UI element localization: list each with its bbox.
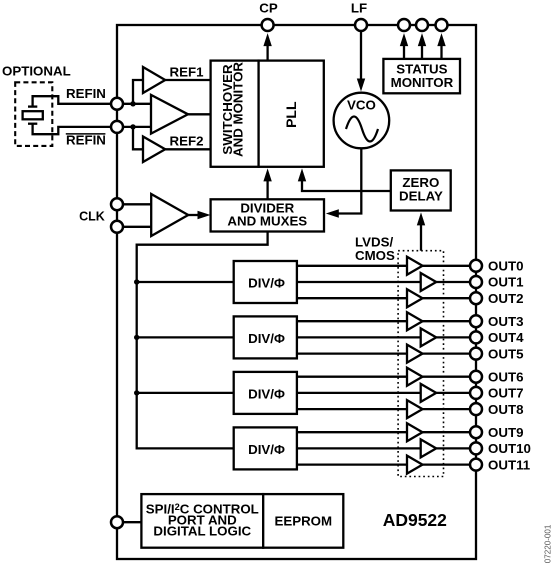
wire OUT8 buffer to pin (423, 408, 477, 410)
wire OUT2 buffer to pin (423, 297, 477, 299)
wire divider to OUT7 buffer (297, 392, 421, 394)
pin OUT4 (470, 331, 482, 343)
oscillator VCO circle (334, 93, 390, 149)
wire divider to OUT4 buffer (297, 336, 421, 338)
node feed junction 1 (134, 279, 139, 284)
svg-text:OUT4: OUT4 (488, 330, 524, 345)
node REFIN junction (130, 101, 135, 106)
svg-text:OUT8: OUT8 (488, 402, 523, 417)
svg-text:DIV/Φ: DIV/Φ (248, 442, 285, 457)
pin OUT8 (470, 403, 482, 415)
buffer REF2 (143, 137, 165, 163)
box DIVIDER AND MUXES (211, 199, 324, 231)
wire OUT7 buffer to pin (436, 392, 476, 394)
pin OUT3 (470, 315, 482, 327)
wire crystal top to REFIN (33, 96, 117, 106)
wire CLKB to clock buffer (117, 226, 151, 228)
node feed junction 3 (134, 390, 139, 395)
svg-text:OUT0: OUT0 (488, 259, 523, 274)
buffer differential reference (151, 95, 188, 134)
svg-text:AND MONITOR: AND MONITOR (230, 62, 245, 157)
pin OUT6 (470, 371, 482, 383)
pin OUT7 (470, 387, 482, 399)
buffer OUT8 driver (407, 400, 423, 418)
svg-text:OUT5: OUT5 (488, 346, 524, 361)
wire REFINB to reference buffers (117, 126, 151, 128)
wire divider to OUT1 buffer (297, 281, 421, 283)
wire VCO to divider (337, 148, 361, 213)
wire REF2 buffer to switchover (165, 148, 210, 150)
wire REF1 buffer to switchover (165, 79, 210, 81)
wire feed to channel divider 2 (137, 336, 234, 338)
svg-text:LF: LF (351, 0, 367, 15)
pin STATUS1 (398, 19, 410, 31)
crystal Y1 bottom plate (28, 123, 37, 125)
pin OUT9 (470, 426, 482, 438)
svg-text:MONITOR: MONITOR (391, 75, 454, 90)
svg-text:AD9522: AD9522 (383, 510, 447, 530)
wire divider to OUT2 buffer (297, 297, 407, 299)
svg-text:OUT6: OUT6 (488, 369, 523, 384)
box SPI/I2C control port (141, 494, 263, 548)
pin CLKB (111, 221, 123, 233)
pin OUT11 (470, 459, 482, 471)
wire feed to channel divider 3 (137, 392, 234, 394)
wire REFINB branch to REF2 buffer (133, 127, 143, 149)
pin STATUS3 (436, 19, 448, 31)
pin OUT10 (470, 442, 482, 454)
svg-text:PLL: PLL (283, 101, 299, 128)
pin OUT5 (470, 348, 482, 360)
crystal Y1 top plate (28, 105, 37, 107)
svg-text:REF1: REF1 (170, 65, 205, 80)
svg-text:OUT1: OUT1 (488, 275, 524, 290)
wire OUT9 buffer to pin (423, 431, 477, 433)
svg-text:DIV/Φ: DIV/Φ (248, 275, 285, 290)
pin CP (262, 19, 274, 31)
node feed junction 2 (134, 335, 139, 340)
buffer OUT9 driver (407, 423, 423, 441)
buffer OUT2 driver (407, 289, 423, 307)
wire divider to OUT3 buffer (297, 320, 407, 322)
wire divider output feed (137, 232, 268, 449)
buffer OUT0 driver (407, 257, 423, 275)
svg-text:CLK: CLK (79, 210, 105, 224)
svg-text:AND MUXES: AND MUXES (227, 213, 307, 228)
box ZERO DELAY (391, 170, 451, 210)
box PLL (259, 61, 324, 167)
wire zero delay input from output (420, 223, 422, 251)
svg-text:07220-001: 07220-001 (544, 524, 553, 563)
outer block boundary (117, 25, 476, 559)
wire divider to OUT10 buffer (297, 447, 421, 449)
svg-text:REFIN: REFIN (66, 86, 106, 101)
wire divider to OUT9 buffer (297, 431, 407, 433)
box DIV/&#934; channel divider 3 (234, 372, 297, 414)
wire OUT11 buffer to pin (423, 463, 477, 465)
svg-text:OUT10: OUT10 (488, 441, 531, 456)
buffer OUT7 driver (421, 384, 437, 402)
svg-text:REF2: REF2 (170, 134, 204, 149)
wire OUT5 buffer to pin (423, 352, 477, 354)
svg-text:CP: CP (259, 0, 278, 15)
wire LF to VCO (360, 31, 362, 82)
svg-text:DELAY: DELAY (399, 188, 443, 203)
wire status monitor arrow 1 (403, 44, 405, 59)
box SWITCHOVER AND MONITOR (211, 61, 259, 167)
node REFINB junction (130, 124, 135, 129)
pin OUT2 (470, 292, 482, 304)
buffer OUT10 driver (421, 439, 437, 457)
pin STATUS2 (416, 19, 428, 31)
pin LF (355, 19, 367, 31)
wire crystal bottom to REFINB (33, 124, 117, 135)
svg-text:OUT2: OUT2 (488, 291, 523, 306)
wire divider to OUT0 buffer (297, 265, 407, 267)
pin OUT1 (470, 276, 482, 288)
wire SPI port pin (117, 521, 141, 523)
buffer CLK input (151, 194, 188, 236)
buffer OUT5 driver (407, 345, 423, 363)
wire divider to OUT11 buffer (297, 463, 407, 465)
pin OUT0 (470, 260, 482, 272)
buffer REF1 (143, 67, 165, 93)
svg-text:OPTIONAL: OPTIONAL (2, 64, 71, 79)
svg-text:EEPROM: EEPROM (274, 514, 332, 529)
buffer OUT11 driver (407, 456, 423, 474)
wire status monitor arrow 3 (440, 44, 442, 59)
wire divider to OUT5 buffer (297, 352, 407, 354)
svg-text:VCO: VCO (347, 98, 376, 113)
wire differential buffer to switchover (188, 113, 211, 115)
wire OUT3 buffer to pin (423, 320, 477, 322)
buffer OUT6 driver (407, 368, 423, 386)
wire status monitor arrow 2 (421, 44, 423, 59)
wire divider to OUT6 buffer (297, 376, 407, 378)
wire divider to PLL feedback arrow (266, 180, 268, 200)
box STATUS MONITOR (383, 59, 460, 93)
box DIV/&#934; channel divider 4 (234, 427, 297, 469)
pin CLK (111, 198, 123, 210)
vco sine wave (346, 117, 378, 142)
wire CP charge-pump output from PLL top (266, 43, 268, 61)
pin REFIN (111, 98, 123, 110)
buffer OUT4 driver (421, 328, 437, 346)
box DIV/&#934; channel divider 2 (234, 316, 297, 358)
svg-text:OUT11: OUT11 (488, 457, 531, 472)
pin REFINB (111, 121, 123, 133)
wire OUT0 buffer to pin (423, 265, 477, 267)
wire REFIN branch to REF1 buffer (133, 80, 143, 104)
dashed box OPTIONAL crystal (15, 82, 52, 146)
wire OUT4 buffer to pin (436, 336, 476, 338)
dotted box LVDS/CMOS drivers (398, 251, 443, 477)
svg-text:OUT3: OUT3 (488, 314, 523, 329)
svg-text:OUT7: OUT7 (488, 386, 523, 401)
wire CLK buffer to divider (188, 214, 199, 216)
wire OUT1 buffer to pin (436, 281, 476, 283)
box DIV/&#934; channel divider 1 (234, 261, 297, 303)
buffer OUT3 driver (407, 312, 423, 330)
box EEPROM (263, 494, 343, 548)
pin SPI (111, 516, 123, 528)
svg-text:CMOS: CMOS (355, 248, 395, 263)
buffer OUT1 driver (421, 273, 437, 291)
wire divider to OUT8 buffer (297, 408, 407, 410)
wire OUT10 buffer to pin (436, 447, 476, 449)
svg-text:DIGITAL LOGIC: DIGITAL LOGIC (153, 524, 251, 539)
svg-text:OUT9: OUT9 (488, 425, 523, 440)
wire OUT6 buffer to pin (423, 376, 477, 378)
svg-text:DIV/Φ: DIV/Φ (248, 386, 285, 401)
svg-text:DIV/Φ: DIV/Φ (248, 331, 285, 346)
wire REFIN to reference buffers (117, 103, 151, 105)
wire feed to channel divider 1 (137, 281, 234, 283)
crystal Y1 body (23, 111, 43, 119)
wire ZERO DELAY to PLL (302, 180, 391, 192)
wire CLK to clock buffer (117, 203, 151, 205)
